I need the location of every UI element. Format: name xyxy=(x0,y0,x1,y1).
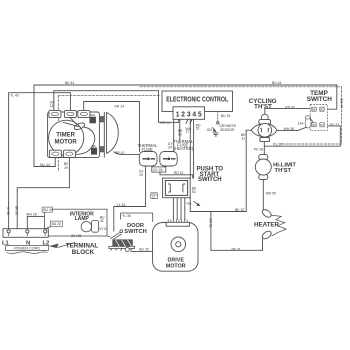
svg-text:BK 31: BK 31 xyxy=(209,219,213,228)
svg-text:TH'ST: TH'ST xyxy=(275,168,292,174)
svg-text:24: 24 xyxy=(168,146,172,150)
svg-text:51: 51 xyxy=(196,127,200,131)
svg-text:SWITCH: SWITCH xyxy=(124,229,146,235)
svg-text:WH 55: WH 55 xyxy=(266,191,276,195)
svg-text:BU 44: BU 44 xyxy=(272,81,282,85)
svg-text:BU: BU xyxy=(320,107,324,111)
svg-text:L1: L1 xyxy=(2,241,10,247)
svg-text:BU 26: BU 26 xyxy=(139,248,149,252)
svg-text:GN: GN xyxy=(207,128,213,132)
svg-text:YL 43: YL 43 xyxy=(6,206,10,215)
svg-text:BR 10: BR 10 xyxy=(115,151,125,155)
svg-text:OR 24: OR 24 xyxy=(114,104,124,108)
svg-text:DRIVE: DRIVE xyxy=(167,257,184,263)
svg-text:52: 52 xyxy=(192,190,196,194)
svg-text:BK: BK xyxy=(312,107,316,111)
svg-text:WH 28: WH 28 xyxy=(71,234,81,238)
svg-text:YL 43: YL 43 xyxy=(10,94,19,98)
svg-text:GA: GA xyxy=(187,202,193,206)
svg-text:POWER CORD: POWER CORD xyxy=(14,247,40,251)
svg-text:PU 36: PU 36 xyxy=(254,147,264,151)
svg-text:FUSE: FUSE xyxy=(142,147,153,152)
svg-text:PU 37: PU 37 xyxy=(273,143,283,147)
svg-text:31: 31 xyxy=(241,137,245,141)
svg-text:N: N xyxy=(26,241,30,247)
svg-text:RD 21: RD 21 xyxy=(174,171,184,175)
svg-text:RD 42: RD 42 xyxy=(285,105,295,109)
svg-text:BU 44: BU 44 xyxy=(340,99,344,109)
svg-text:BU 19: BU 19 xyxy=(221,114,231,118)
svg-text:WH 38: WH 38 xyxy=(284,127,294,131)
svg-text:12A: 12A xyxy=(298,121,305,125)
svg-text:19: 19 xyxy=(139,173,143,177)
svg-text:BK 31: BK 31 xyxy=(232,247,241,251)
svg-text:BK 32: BK 32 xyxy=(235,208,244,212)
svg-text:GY 51: GY 51 xyxy=(99,227,109,231)
svg-text:MOTOR: MOTOR xyxy=(166,264,186,270)
svg-text:41: 41 xyxy=(100,219,104,223)
svg-text:SENSOR: SENSOR xyxy=(220,128,235,132)
svg-text:ELECTRONIC CONTROL: ELECTRONIC CONTROL xyxy=(166,96,229,103)
svg-text:WH 28: WH 28 xyxy=(26,213,36,217)
svg-text:WH: WH xyxy=(90,113,95,117)
svg-text:14: 14 xyxy=(50,104,54,108)
svg-text:29: 29 xyxy=(64,166,68,170)
svg-text:SWITCH: SWITCH xyxy=(307,96,333,103)
svg-text:17: 17 xyxy=(186,130,190,134)
svg-text:PU: PU xyxy=(320,123,324,127)
svg-text:BLOCK: BLOCK xyxy=(72,249,95,256)
svg-text:GY 26: GY 26 xyxy=(153,168,163,172)
svg-text:BU 26: BU 26 xyxy=(52,222,62,226)
svg-text:TIMER: TIMER xyxy=(56,132,75,138)
svg-text:TH'ST: TH'ST xyxy=(254,103,272,110)
svg-text:BU 40: BU 40 xyxy=(43,208,53,212)
svg-text:SWITCH: SWITCH xyxy=(198,177,222,183)
svg-text:MOTOR: MOTOR xyxy=(54,139,77,145)
svg-text:BK 30: BK 30 xyxy=(15,206,19,215)
svg-text:YL 34: YL 34 xyxy=(117,203,126,207)
svg-text:BU 44: BU 44 xyxy=(65,81,75,85)
svg-text:WH: WH xyxy=(312,123,316,127)
svg-text:LAMP: LAMP xyxy=(75,216,90,222)
svg-text:YL 35: YL 35 xyxy=(122,214,131,218)
svg-text:PU 37: PU 37 xyxy=(330,123,340,127)
svg-text:16: 16 xyxy=(178,132,182,136)
svg-text:1 2 3 4 5: 1 2 3 4 5 xyxy=(176,109,202,118)
svg-text:L2: L2 xyxy=(43,241,50,247)
svg-text:HEATER: HEATER xyxy=(254,221,280,228)
svg-text:BU 44: BU 44 xyxy=(40,163,50,167)
svg-text:(HEATER): (HEATER) xyxy=(174,146,194,151)
svg-text:DOOR: DOOR xyxy=(127,223,144,229)
svg-text:OR 14: OR 14 xyxy=(160,121,170,125)
